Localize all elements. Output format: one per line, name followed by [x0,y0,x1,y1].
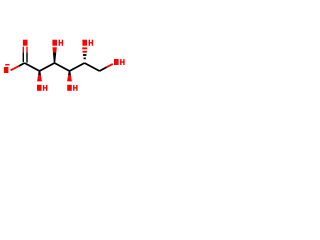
wire bond C4-C5 [70,63,85,71]
wire bond C6 to OH (black half) [100,67,107,71]
hash bond C5-OH rung 2 red [83,51,87,53]
wire bond C3-C4 [55,63,70,71]
hash bond C5-OH rung 1 red [82,47,87,49]
atom label OH on C2 [37,85,47,91]
hash bond C5-OH rung 3 black [83,54,87,56]
wedge bond C4-OH red part [67,75,72,81]
atom label OH on C6 (terminal) [114,59,125,65]
wedge bond C3-OH red part [52,47,56,52]
atom label O minus (carboxylate O) [4,64,9,73]
wire double bond C1=O right line red top [26,47,28,53]
atom label OH on C4 [67,85,77,91]
wire bond C6 to OH (red half) [107,64,113,67]
wire bond C1 to O minus (black half) [19,63,25,66]
atom label O (carbonyl) [23,40,28,46]
wire bond C1-C2 [25,63,40,71]
wire bond C1 to O minus (red half) [11,66,19,70]
wedge bond C2-OH red part [37,75,42,81]
atom label OH on C3 [52,40,63,46]
hash bond C5-OH rung 4 black [84,58,86,60]
wire double bond C1=O right line black bottom [26,52,28,62]
wire double bond C1=O left line black bottom [22,52,24,62]
wire double bond C1=O left line red top [22,47,24,53]
wedge bond C2-OH black part [38,71,41,76]
wedge bond C3-OH black part [53,52,56,62]
wire bond C5-C6 [85,63,100,71]
atom label OH on C5 [82,40,93,46]
wedge bond C4-OH black part [68,71,71,76]
wire bond C2-C3 [40,63,55,71]
